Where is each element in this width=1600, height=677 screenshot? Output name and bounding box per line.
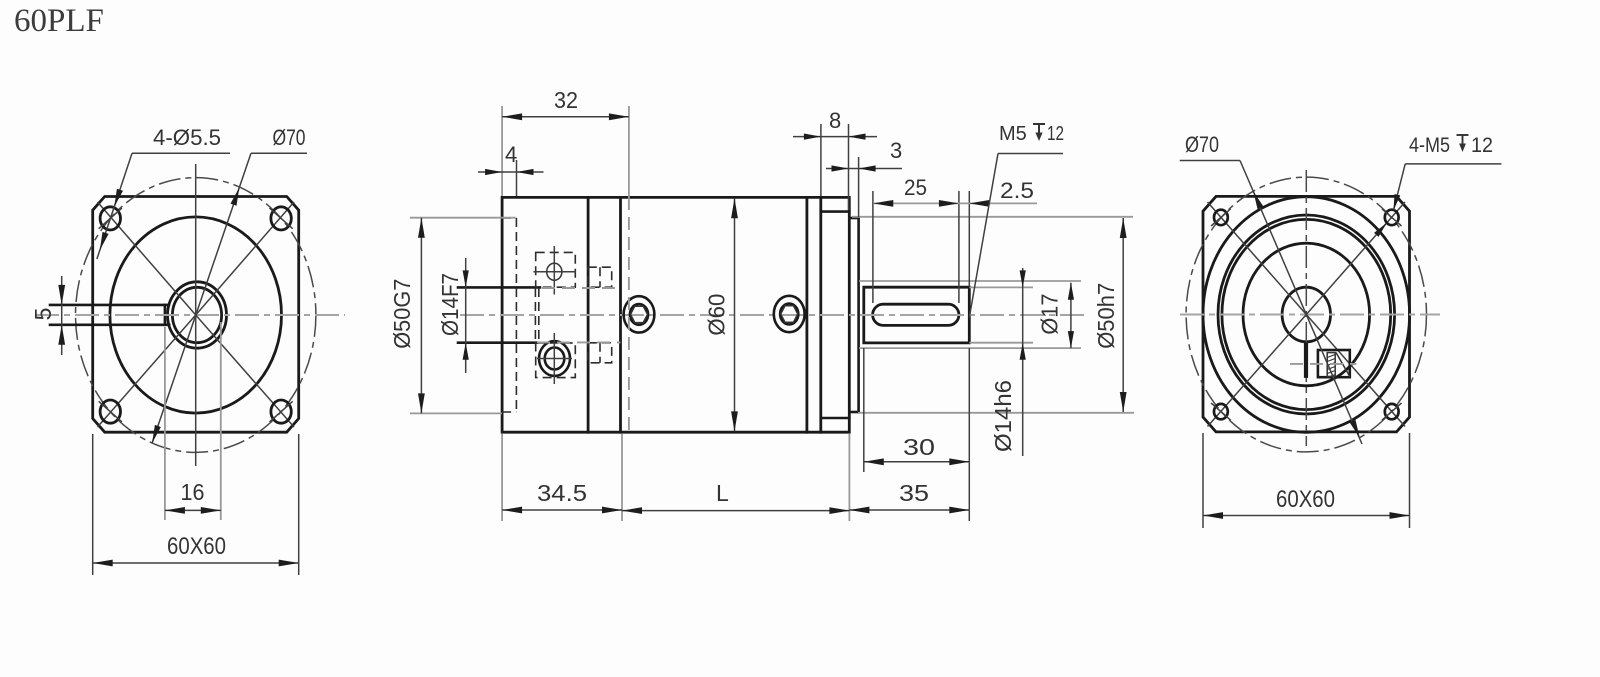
dimension Ø17	[1070, 283, 1072, 348]
right view: hole cross mark 4	[1382, 403, 1402, 420]
middle view: Ø50h7 register	[849, 217, 858, 220]
svg-text:5: 5	[30, 308, 56, 321]
middle view: clamp block top (hidden)	[536, 252, 576, 287]
right view: radial diagonal to corner 2	[1306, 202, 1405, 315]
left view: radial diagonal to corner 1	[98, 202, 196, 315]
right view: radial diagonal to corner 4	[1306, 315, 1405, 427]
svg-text:Ø14h6: Ø14h6	[990, 380, 1016, 452]
svg-text:Ø50G7: Ø50G7	[389, 279, 415, 349]
svg-text:32: 32	[554, 87, 578, 113]
middle view: keyway (rounded slot)	[873, 304, 959, 325]
middle view: output shaft outline	[864, 287, 970, 343]
svg-text:2.5: 2.5	[1000, 178, 1034, 203]
dimension 16	[164, 327, 166, 520]
svg-text:8: 8	[829, 108, 841, 133]
middle view: flange chamfer lines	[821, 210, 850, 213]
left view: Ø50 pilot circle	[110, 217, 282, 413]
middle view: joint line (flange block face)	[587, 197, 590, 432]
svg-text:35: 35	[899, 480, 929, 506]
svg-text:25: 25	[904, 175, 927, 200]
dimension Ø50G7	[410, 217, 516, 219]
right view: tapped hole 2 (M5)	[1385, 210, 1399, 225]
dimension 30	[863, 348, 865, 472]
svg-text:4: 4	[505, 142, 517, 167]
left view: radial diagonal to corner 2	[196, 202, 294, 315]
right view: radial diagonal to corner 1	[1208, 202, 1307, 315]
left view: bolt hole 1 (Ø5.5)	[100, 207, 120, 230]
right view: tapped hole 1 (M5)	[1214, 210, 1228, 225]
right view: keyway detail box	[1318, 350, 1350, 377]
left view: bolt hole 4 (Ø5.5)	[271, 400, 291, 423]
middle view: clamp washer+screw bottom	[539, 341, 570, 376]
svg-text:34.5: 34.5	[537, 480, 587, 506]
left view: bolt circle Ø70 (dash-dot)	[76, 178, 316, 453]
dimension 5 (key slot width)	[61, 276, 63, 355]
left view: horizontal centerline	[35, 314, 345, 316]
middle view: clamp block bottom (hidden)	[536, 343, 576, 378]
left view: bore circle Ø14	[172, 287, 221, 342]
right view: keyway section thick bar	[1304, 343, 1308, 378]
dimension 35	[849, 509, 969, 511]
right view: bolt circle Ø70 (dash-dot)	[1186, 177, 1426, 452]
middle view: output flange face line	[819, 197, 822, 432]
svg-text:60X60: 60X60	[1276, 486, 1335, 513]
svg-text:60PLF: 60PLF	[14, 3, 104, 39]
middle view: joint line (ring gear)	[619, 197, 622, 432]
left view: bolt hole 2 (Ø5.5)	[271, 207, 291, 230]
right view: key hatched strip	[1327, 353, 1335, 377]
left view: hub outer circle Ø17	[168, 282, 227, 348]
dimension 32	[501, 106, 503, 196]
right view: keyway detail diagonal	[1336, 353, 1350, 377]
svg-text:30: 30	[903, 434, 935, 460]
right view: tapped hole 3 (M5)	[1214, 404, 1228, 419]
middle view: clamp slit hidden lines	[534, 288, 536, 342]
right view: vertical centerline	[1305, 170, 1307, 446]
left view: vertical centerline	[195, 164, 197, 466]
dimension Ø14F7	[465, 258, 467, 373]
svg-text:4-Ø5.5: 4-Ø5.5	[153, 125, 221, 150]
right view: Ø50 register circle inner	[1222, 219, 1391, 409]
svg-text:60X60: 60X60	[167, 533, 226, 560]
right view: hole cross mark 3	[1211, 403, 1231, 420]
middle view: Ø17 extension lines	[859, 280, 1081, 282]
middle view: hidden recess floor line	[515, 218, 517, 412]
right view: horizontal centerline	[1180, 313, 1440, 315]
svg-text:3: 3	[890, 138, 902, 163]
left view: square flange outline	[93, 197, 299, 433]
right view: inner recess circle	[1243, 243, 1370, 386]
svg-text:L: L	[716, 480, 729, 506]
svg-text:Ø17: Ø17	[1037, 294, 1063, 335]
dimension 4	[516, 160, 518, 196]
right view: Ø60 circle	[1203, 197, 1410, 433]
dimension 3	[858, 157, 860, 217]
right view: tapped hole 4 (M5)	[1385, 404, 1399, 419]
middle view: clamp screw pilot circle	[547, 263, 562, 280]
svg-text:12: 12	[1471, 134, 1493, 157]
right view: radial diagonal to corner 3	[1208, 315, 1307, 427]
middle view: clamp bottom center marks	[553, 333, 555, 384]
middle view: joint line (rear plate)	[806, 197, 809, 432]
middle view: hidden connector lines	[542, 287, 621, 289]
middle view: carrier socket screw 2	[774, 296, 805, 332]
middle view: body outline	[502, 197, 849, 432]
middle view: Ø50h7 extension lines	[852, 216, 1133, 218]
dimension L	[848, 434, 850, 521]
left view: radial diagonal to corner 3	[98, 315, 196, 427]
right view: bore circle Ø14	[1282, 287, 1330, 342]
svg-text:Ø70: Ø70	[273, 125, 306, 150]
right view: hole cross mark 2	[1382, 209, 1402, 226]
left view: hole cross mark 2	[270, 208, 293, 229]
middle view: Ø14h6 extension lines	[969, 286, 1033, 288]
left view: radial diagonal to corner 4	[196, 315, 294, 427]
left view: hole cross mark 4	[270, 401, 293, 422]
middle view: input bore lines Ø14F7	[458, 286, 540, 289]
right view: hole cross mark 1	[1211, 209, 1231, 226]
left view: hole cross mark 3	[99, 401, 122, 422]
dimension Ø50h7	[1122, 218, 1124, 412]
middle view: clamp top center marks	[553, 246, 555, 295]
svg-text:M5: M5	[999, 123, 1027, 145]
dimension Ø60	[734, 198, 736, 431]
svg-text:Ø50h7: Ø50h7	[1093, 283, 1119, 349]
svg-text:Ø60: Ø60	[703, 294, 729, 336]
dimension 60X60 (right view)	[1202, 433, 1204, 528]
dimension 25 (keyway) and 2.5	[872, 191, 874, 303]
right view: Ø50 register circle outer	[1218, 215, 1395, 414]
middle view: carrier socket screw 1	[624, 296, 655, 332]
middle view: screw head top (hidden)	[588, 267, 612, 287]
middle view: horizontal centerline	[460, 314, 1085, 316]
middle view: screw head bottom (hidden)	[588, 343, 612, 363]
svg-text:16: 16	[181, 479, 205, 505]
svg-text:12: 12	[1047, 123, 1064, 145]
dimension Ø14h6	[1022, 268, 1024, 456]
left view: bolt hole 3 (Ø5.5)	[100, 400, 120, 423]
svg-text:Ø14F7: Ø14F7	[437, 273, 463, 336]
dimension 60X60 (left view)	[92, 434, 94, 575]
svg-text:Ø70: Ø70	[1185, 132, 1219, 157]
svg-text:4-M5: 4-M5	[1409, 134, 1450, 157]
dimension 8	[820, 124, 822, 196]
left view: key slot lines	[50, 304, 169, 307]
left view: hole cross mark 1	[99, 208, 122, 229]
right view: square flange outline	[1203, 196, 1410, 432]
dimension 34.5	[501, 434, 503, 521]
right view: keyway detail centerline	[1290, 363, 1356, 365]
